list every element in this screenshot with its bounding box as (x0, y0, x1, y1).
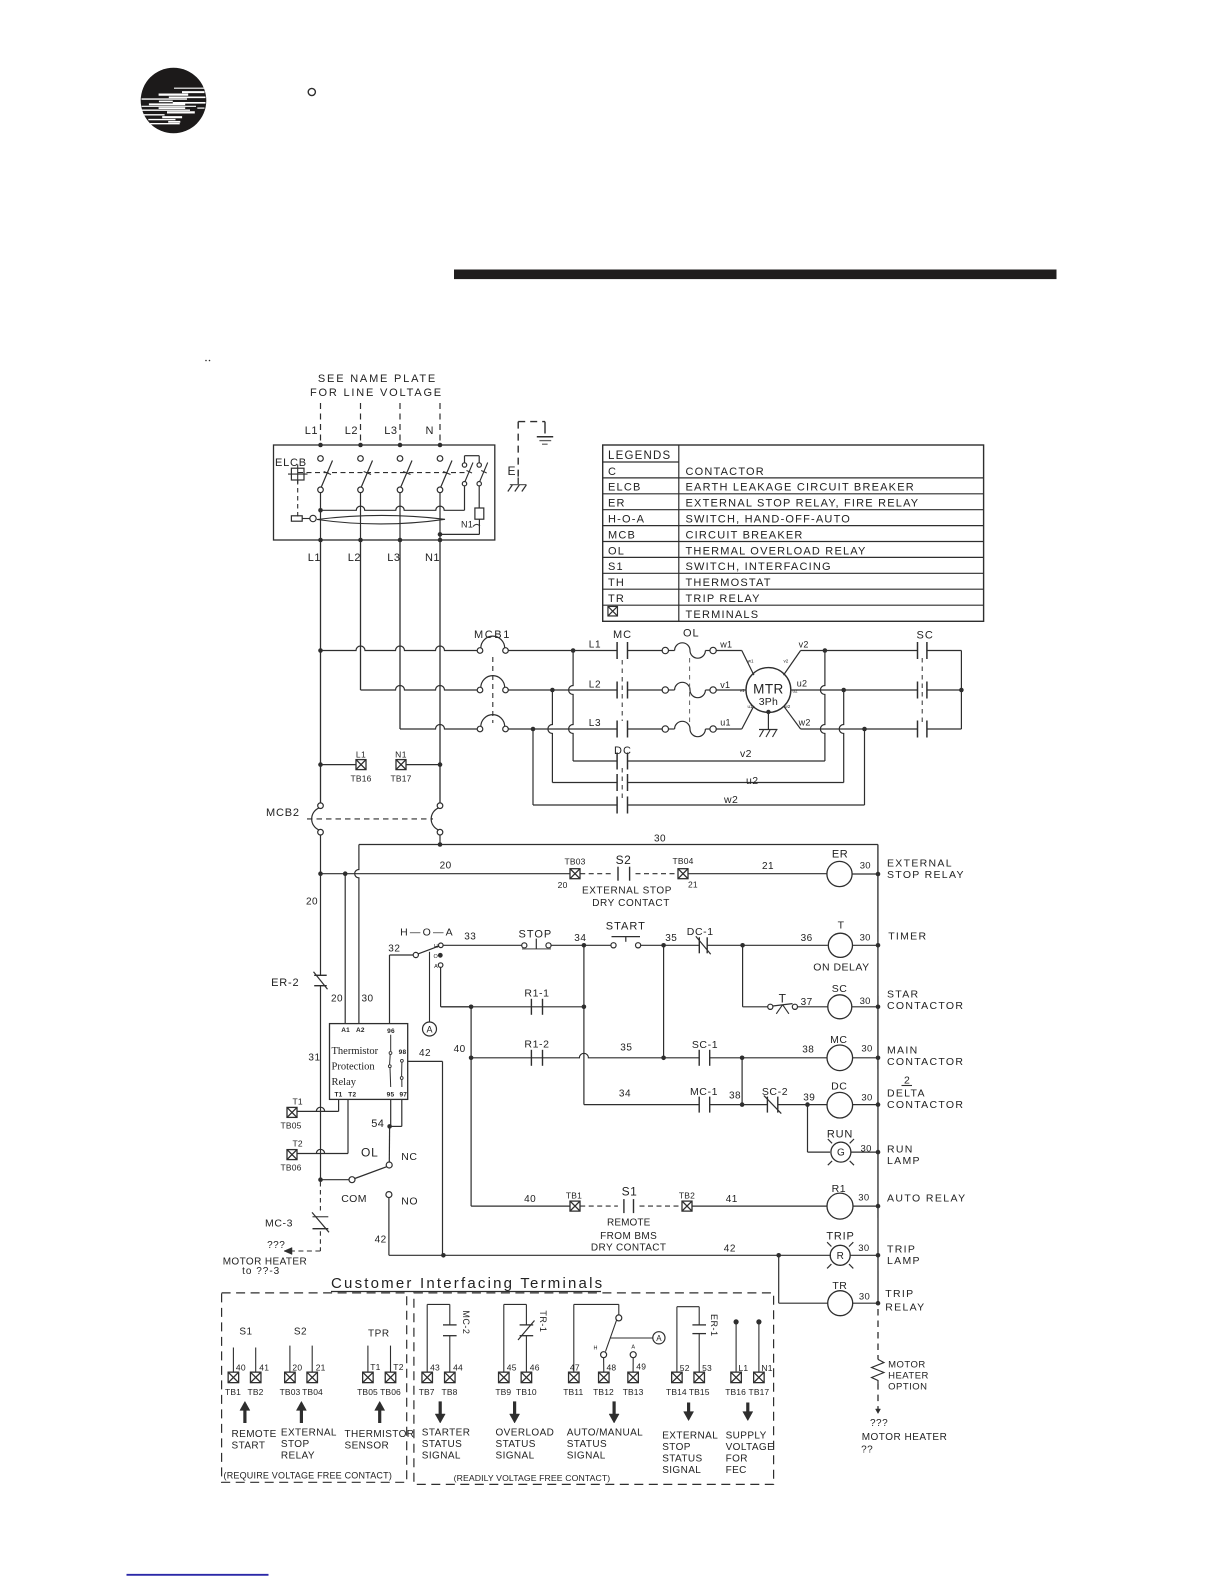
svg-text:w2: w2 (785, 704, 791, 709)
svg-text:H—O—A: H—O—A (400, 927, 455, 939)
svg-text:S1: S1 (239, 1327, 252, 1338)
svg-text:??: ?? (861, 1445, 873, 1456)
svg-text:MCB1: MCB1 (474, 629, 511, 641)
svg-text:L1: L1 (305, 425, 318, 437)
svg-text:40: 40 (524, 1194, 536, 1205)
svg-text:SIGNAL: SIGNAL (567, 1451, 606, 1462)
svg-text:TB14: TB14 (666, 1387, 687, 1397)
svg-text:TPR: TPR (368, 1329, 390, 1340)
svg-text:v1: v1 (740, 688, 745, 693)
svg-text:Protection: Protection (332, 1062, 376, 1073)
svg-text:MC-3: MC-3 (265, 1218, 293, 1230)
svg-text:21: 21 (688, 880, 698, 890)
svg-text:TB05: TB05 (280, 1121, 301, 1131)
svg-text:38: 38 (729, 1091, 741, 1102)
svg-text:MCB2: MCB2 (266, 807, 300, 819)
svg-text:DRY CONTACT: DRY CONTACT (592, 898, 670, 909)
svg-text:20: 20 (440, 861, 452, 872)
svg-text:SC-1: SC-1 (692, 1039, 718, 1051)
svg-text:???: ??? (870, 1418, 888, 1429)
svg-text:TB9: TB9 (495, 1387, 511, 1397)
svg-text:to ??-3: to ??-3 (242, 1266, 280, 1277)
svg-text:H: H (434, 944, 438, 950)
svg-text:TB2: TB2 (248, 1387, 264, 1397)
svg-text:30: 30 (858, 1243, 869, 1254)
svg-text:A: A (426, 1025, 432, 1035)
svg-text:(READILY VOLTAGE FREE CONTACT): (READILY VOLTAGE FREE CONTACT) (454, 1473, 611, 1483)
svg-text:L2: L2 (345, 425, 358, 437)
svg-text:30: 30 (654, 834, 666, 845)
svg-text:32: 32 (388, 944, 400, 955)
svg-text:43: 43 (430, 1363, 440, 1373)
svg-text:Relay: Relay (332, 1077, 357, 1088)
svg-text:EXTERNAL STOP RELAY, FIRE RELA: EXTERNAL STOP RELAY, FIRE RELAY (686, 498, 920, 510)
svg-text:42: 42 (375, 1235, 387, 1246)
svg-text:21: 21 (316, 1363, 326, 1373)
svg-text:98: 98 (399, 1049, 407, 1056)
svg-text:AUTO/MANUAL: AUTO/MANUAL (567, 1428, 643, 1439)
svg-text:L1: L1 (308, 552, 321, 564)
svg-text:ER: ER (608, 498, 626, 510)
svg-text:EXTERNAL STOP: EXTERNAL STOP (582, 886, 672, 897)
svg-text:DC: DC (831, 1081, 847, 1093)
svg-text:REMOTE: REMOTE (232, 1429, 277, 1440)
svg-text:STATUS: STATUS (496, 1439, 536, 1450)
svg-text:ELCB: ELCB (275, 457, 307, 469)
svg-text:A2: A2 (356, 1027, 365, 1034)
svg-text:A1: A1 (341, 1027, 350, 1034)
svg-text:TB10: TB10 (516, 1387, 537, 1397)
svg-text:2: 2 (904, 1075, 910, 1087)
svg-text:T: T (838, 920, 845, 932)
svg-text:RELAY: RELAY (885, 1302, 925, 1314)
svg-text:40: 40 (236, 1363, 246, 1373)
svg-text:u2: u2 (797, 678, 808, 688)
svg-text:35: 35 (620, 1043, 632, 1054)
svg-text:ELCB: ELCB (608, 482, 642, 494)
svg-text:L2: L2 (589, 680, 601, 691)
svg-text:41: 41 (259, 1363, 269, 1373)
svg-text:RUN: RUN (827, 1129, 853, 1141)
svg-text:STOP: STOP (662, 1442, 691, 1453)
svg-text:30: 30 (860, 933, 871, 944)
svg-text:TB06: TB06 (380, 1387, 401, 1397)
svg-text:TB12: TB12 (593, 1387, 614, 1397)
svg-text:A: A (434, 964, 438, 970)
svg-text:30: 30 (861, 1044, 872, 1055)
svg-text:TRIP: TRIP (887, 1244, 916, 1256)
svg-text:H-O-A: H-O-A (608, 514, 645, 526)
svg-text:T: T (779, 992, 787, 1006)
svg-text:39: 39 (803, 1093, 815, 1104)
svg-text:???: ??? (267, 1240, 285, 1251)
svg-text:42: 42 (419, 1048, 431, 1059)
svg-text:OL: OL (361, 1146, 379, 1160)
svg-text:STAR: STAR (887, 989, 919, 1001)
svg-text:MCB: MCB (608, 529, 636, 541)
svg-text:TB16: TB16 (350, 774, 371, 784)
svg-text:OL: OL (683, 628, 700, 640)
svg-text:CONTACTOR: CONTACTOR (887, 1000, 964, 1012)
svg-text:G: G (837, 1148, 845, 1159)
svg-text:TB03: TB03 (280, 1387, 301, 1397)
svg-text:95: 95 (387, 1091, 395, 1098)
svg-text:SUPPLY: SUPPLY (726, 1431, 767, 1442)
svg-text:TR: TR (832, 1280, 847, 1292)
svg-text:TB7: TB7 (419, 1387, 435, 1397)
svg-text:46: 46 (530, 1363, 540, 1373)
svg-text:SC: SC (832, 983, 848, 995)
svg-text:N1: N1 (395, 750, 407, 760)
svg-text:30: 30 (858, 1193, 869, 1204)
svg-text:R: R (837, 1251, 844, 1262)
svg-text:TB2: TB2 (679, 1191, 695, 1201)
svg-text:TB1: TB1 (225, 1387, 241, 1397)
svg-text:EXTERNAL: EXTERNAL (281, 1428, 337, 1439)
svg-text:S2: S2 (294, 1327, 307, 1338)
svg-text:TR: TR (608, 593, 625, 605)
svg-text:OVERLOAD: OVERLOAD (496, 1428, 555, 1439)
svg-text:w2: w2 (723, 794, 738, 806)
svg-text:MOTOR: MOTOR (888, 1360, 926, 1371)
svg-text:35: 35 (665, 933, 677, 944)
svg-text:33: 33 (464, 932, 476, 943)
svg-text:R1-1: R1-1 (524, 988, 549, 1000)
svg-text:TB15: TB15 (689, 1387, 710, 1397)
svg-text:Customer Interfacing Terminals: Customer Interfacing Terminals (331, 1275, 604, 1292)
svg-text:TB05: TB05 (357, 1387, 378, 1397)
svg-text:w1: w1 (719, 639, 732, 649)
svg-text:u1: u1 (720, 718, 731, 728)
svg-text:SC-2: SC-2 (762, 1086, 788, 1098)
svg-text:TRIP RELAY: TRIP RELAY (686, 593, 761, 605)
svg-text:CONTACTOR: CONTACTOR (887, 1099, 964, 1111)
svg-text:30: 30 (860, 860, 871, 871)
svg-text:TB11: TB11 (563, 1387, 583, 1397)
svg-text:47: 47 (570, 1363, 580, 1373)
svg-text:TB1: TB1 (566, 1191, 582, 1201)
svg-text:ER-2: ER-2 (271, 977, 299, 989)
svg-text:E: E (508, 464, 516, 478)
svg-text:S2: S2 (616, 853, 632, 867)
svg-text:v2: v2 (799, 639, 809, 649)
svg-text:49: 49 (636, 1362, 646, 1372)
svg-text:STOP RELAY: STOP RELAY (887, 869, 965, 881)
svg-text:T1: T1 (370, 1362, 380, 1372)
svg-text:38: 38 (802, 1045, 814, 1056)
svg-text:START: START (232, 1441, 266, 1452)
svg-text:TB04: TB04 (672, 856, 693, 866)
svg-text:EARTH LEAKAGE CIRCUIT BREAKER: EARTH LEAKAGE CIRCUIT BREAKER (686, 482, 915, 494)
svg-text:CONTACTOR: CONTACTOR (686, 466, 765, 478)
svg-text:MC: MC (613, 629, 632, 641)
svg-text:T1: T1 (335, 1092, 343, 1099)
svg-text:EXTERNAL: EXTERNAL (887, 857, 953, 869)
svg-text:STATUS: STATUS (662, 1454, 702, 1465)
svg-text:Thermistor: Thermistor (332, 1046, 379, 1057)
svg-text:O: O (434, 954, 439, 960)
svg-text:TH: TH (608, 577, 625, 589)
svg-text:TB8: TB8 (442, 1387, 458, 1397)
svg-text:MAIN: MAIN (887, 1045, 918, 1057)
svg-text:STARTER: STARTER (422, 1428, 471, 1439)
svg-text:A: A (631, 1345, 635, 1351)
svg-text:MOTOR HEATER: MOTOR HEATER (862, 1432, 948, 1443)
svg-text:CONTACTOR: CONTACTOR (887, 1056, 964, 1068)
svg-text:FOR LINE VOLTAGE: FOR LINE VOLTAGE (310, 387, 443, 399)
svg-text:v2: v2 (784, 659, 789, 664)
svg-text:RELAY: RELAY (281, 1451, 315, 1462)
svg-text:THERMOSTAT: THERMOSTAT (686, 577, 772, 589)
svg-text:TB17: TB17 (749, 1387, 770, 1397)
svg-text:v1: v1 (720, 680, 730, 690)
svg-text:TB16: TB16 (725, 1387, 746, 1397)
svg-text:20: 20 (558, 880, 568, 890)
svg-text:LAMP: LAMP (887, 1255, 921, 1267)
svg-text:FROM BMS: FROM BMS (600, 1231, 657, 1242)
svg-text:ER-1: ER-1 (709, 1314, 719, 1337)
svg-text:T1: T1 (293, 1097, 303, 1107)
svg-text:H: H (594, 1346, 598, 1352)
svg-text:LAMP: LAMP (887, 1155, 921, 1167)
svg-text:20: 20 (292, 1363, 302, 1373)
svg-text:20: 20 (331, 994, 343, 1005)
svg-text:FEC: FEC (726, 1465, 747, 1476)
svg-text:STOP: STOP (519, 928, 553, 940)
svg-text:SENSOR: SENSOR (345, 1441, 390, 1452)
svg-text:N: N (426, 425, 434, 437)
svg-text:NC: NC (401, 1151, 417, 1163)
svg-text:T2: T2 (348, 1092, 356, 1099)
svg-text:SIGNAL: SIGNAL (496, 1451, 535, 1462)
svg-text:MC-2: MC-2 (461, 1310, 471, 1334)
svg-text:44: 44 (453, 1363, 463, 1373)
svg-text:45: 45 (507, 1363, 517, 1373)
svg-text:TB17: TB17 (390, 774, 411, 784)
svg-text:AUTO RELAY: AUTO RELAY (887, 1193, 967, 1205)
svg-text:SEE NAME PLATE: SEE NAME PLATE (318, 373, 437, 385)
svg-text:36: 36 (801, 933, 813, 944)
svg-text:CIRCUIT BREAKER: CIRCUIT BREAKER (686, 529, 804, 541)
svg-text:u2: u2 (746, 775, 758, 787)
svg-text:STATUS: STATUS (422, 1439, 462, 1450)
svg-text:DRY CONTACT: DRY CONTACT (591, 1243, 667, 1254)
svg-text:R1: R1 (832, 1183, 846, 1195)
svg-text:97: 97 (399, 1091, 407, 1098)
svg-text:u1: u1 (747, 704, 753, 709)
svg-text:L3: L3 (384, 425, 397, 437)
svg-text:L3: L3 (387, 552, 400, 564)
svg-text:40: 40 (454, 1044, 466, 1055)
svg-text:COM: COM (341, 1193, 367, 1205)
svg-text:STATUS: STATUS (567, 1439, 607, 1450)
svg-text:T2: T2 (393, 1362, 403, 1372)
svg-text:THERMAL OVERLOAD RELAY: THERMAL OVERLOAD RELAY (686, 545, 867, 557)
svg-text:30: 30 (859, 1292, 870, 1303)
svg-text:TRIP: TRIP (826, 1231, 854, 1243)
svg-text:TB04: TB04 (302, 1387, 323, 1397)
svg-text:42: 42 (724, 1244, 736, 1255)
svg-text:MC: MC (830, 1034, 847, 1046)
svg-text:L1: L1 (356, 750, 366, 760)
svg-text:(REQUIRE VOLTAGE FREE CONTACT): (REQUIRE VOLTAGE FREE CONTACT) (224, 1471, 393, 1481)
svg-text:SWITCH, HAND-OFF-AUTO: SWITCH, HAND-OFF-AUTO (686, 514, 852, 526)
svg-text:w1: w1 (748, 659, 754, 664)
svg-text:HEATER: HEATER (888, 1371, 929, 1382)
svg-text:TIMER: TIMER (888, 931, 927, 943)
svg-text:ER: ER (832, 849, 848, 861)
svg-text:30: 30 (860, 996, 871, 1007)
svg-text:DELTA: DELTA (887, 1088, 926, 1100)
svg-text:u2: u2 (793, 689, 799, 694)
svg-text:L3: L3 (589, 718, 601, 729)
svg-text:48: 48 (607, 1363, 617, 1373)
svg-text:L1: L1 (589, 640, 601, 651)
svg-text:30: 30 (362, 994, 374, 1005)
svg-text:FOR: FOR (726, 1454, 748, 1465)
svg-text:N1: N1 (461, 520, 473, 530)
svg-text:TRIP: TRIP (885, 1288, 914, 1300)
svg-text:21: 21 (762, 861, 774, 872)
svg-text:SC: SC (917, 630, 934, 642)
svg-text:20: 20 (306, 897, 318, 908)
svg-text:TB13: TB13 (623, 1387, 644, 1397)
svg-text:C: C (608, 466, 617, 478)
svg-text:EXTERNAL: EXTERNAL (662, 1431, 718, 1442)
svg-text:L2: L2 (348, 552, 361, 564)
svg-text:30: 30 (861, 1093, 872, 1104)
svg-text:w2: w2 (798, 718, 811, 728)
svg-text:S1: S1 (608, 561, 624, 573)
svg-text:v2: v2 (740, 748, 752, 760)
svg-text:R1-2: R1-2 (524, 1039, 549, 1051)
svg-text:START: START (606, 921, 646, 933)
svg-text:LEGENDS: LEGENDS (608, 450, 671, 462)
svg-text:REMOTE: REMOTE (607, 1218, 651, 1229)
svg-text:SWITCH, INTERFACING: SWITCH, INTERFACING (686, 561, 832, 573)
svg-text:54: 54 (371, 1118, 384, 1130)
svg-text:OL: OL (608, 545, 625, 557)
svg-text:34: 34 (574, 933, 586, 944)
svg-text:THERMISTOR: THERMISTOR (345, 1429, 415, 1440)
svg-text:96: 96 (387, 1028, 395, 1035)
svg-text:OPTION: OPTION (888, 1382, 927, 1393)
svg-text:RUN: RUN (887, 1144, 914, 1156)
svg-text:T2: T2 (293, 1139, 303, 1149)
svg-text:MC-1: MC-1 (690, 1086, 718, 1098)
svg-text:34: 34 (619, 1089, 631, 1100)
svg-text:A: A (656, 1334, 662, 1343)
svg-text:MTR: MTR (753, 682, 783, 697)
svg-text:SIGNAL: SIGNAL (662, 1465, 701, 1476)
svg-text:TB03: TB03 (564, 857, 585, 867)
svg-text:41: 41 (726, 1194, 738, 1205)
svg-text:31: 31 (308, 1053, 320, 1064)
svg-text:TB06: TB06 (280, 1163, 301, 1173)
svg-text:STOP: STOP (281, 1439, 310, 1450)
svg-text:DC-1: DC-1 (687, 926, 714, 938)
svg-text:N1: N1 (425, 552, 440, 564)
svg-text:VOLTAGE: VOLTAGE (726, 1442, 775, 1453)
svg-text:3Ph: 3Ph (759, 696, 778, 708)
svg-text:TERMINALS: TERMINALS (686, 609, 760, 621)
svg-text:SIGNAL: SIGNAL (422, 1451, 461, 1462)
svg-text:TR-1: TR-1 (538, 1310, 548, 1332)
svg-text:30: 30 (861, 1144, 872, 1155)
svg-text:S1: S1 (622, 1185, 638, 1199)
svg-text:NO: NO (401, 1196, 418, 1208)
svg-text:ON DELAY: ON DELAY (813, 962, 869, 974)
